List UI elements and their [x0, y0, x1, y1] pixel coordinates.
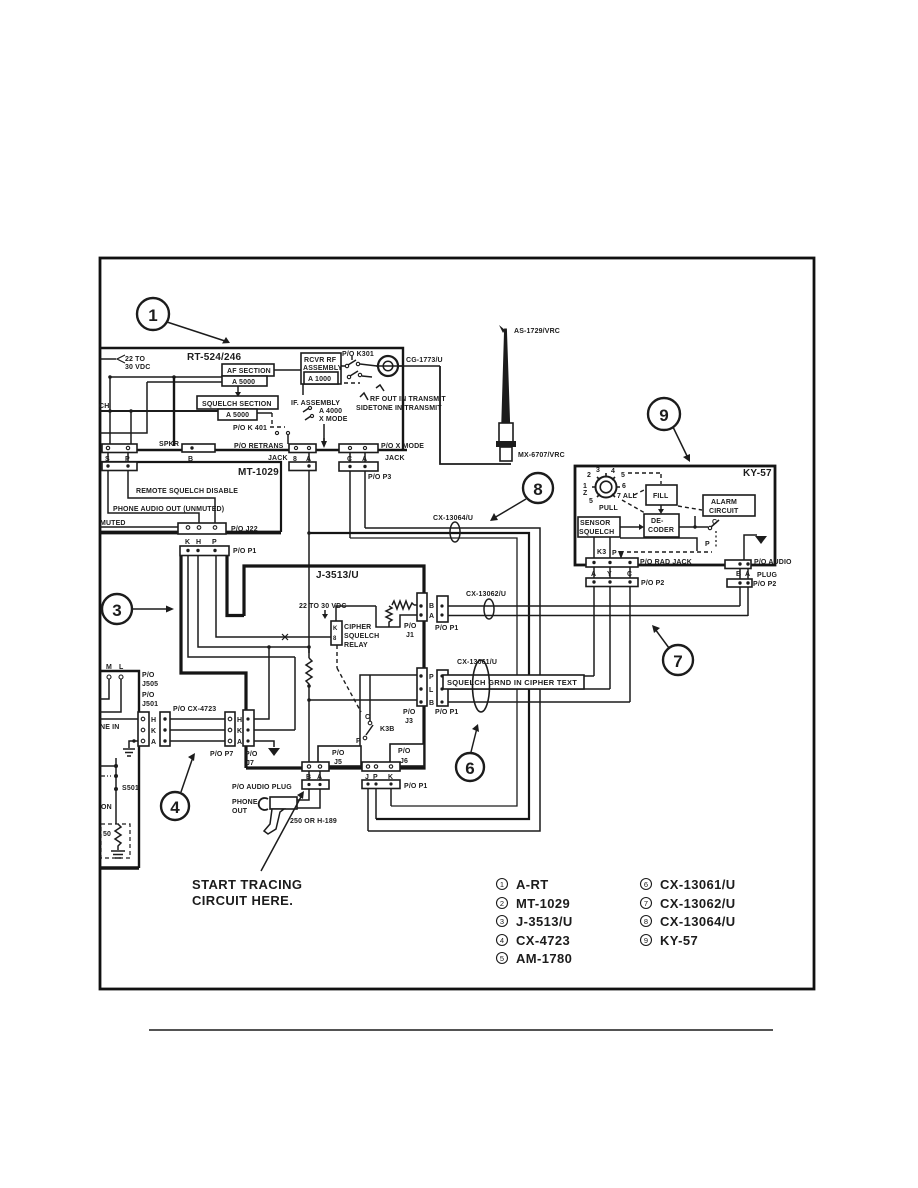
- svg-text:MT-1029: MT-1029: [516, 896, 570, 911]
- svg-text:6: 6: [465, 759, 474, 778]
- wire J7-K riser: [254, 729, 295, 731]
- wire elbow lower-left: [100, 382, 147, 433]
- dashed wire FILL to ALARM: [678, 506, 702, 510]
- legend item 7 CX-13062/U: [641, 898, 652, 909]
- wire J7-H riser: [254, 647, 269, 719]
- arrow FILL to DECODER: [660, 505, 662, 510]
- svg-text:KY-57: KY-57: [743, 468, 772, 479]
- wire resistor node to J3 pin B: [309, 699, 421, 701]
- svg-text:IF. ASSEMBLY: IF. ASSEMBLY: [291, 400, 340, 407]
- ground under resistor: [111, 851, 125, 858]
- svg-text:250 OR H-189: 250 OR H-189: [290, 818, 337, 825]
- ground at audio jack: [744, 535, 757, 560]
- wire A to AF section: [110, 376, 222, 378]
- svg-text:J501: J501: [142, 701, 158, 708]
- svg-text:AM-1780: AM-1780: [516, 951, 572, 966]
- svg-text:P/O P1: P/O P1: [233, 548, 256, 555]
- svg-text:H: H: [196, 539, 201, 546]
- svg-text:7: 7: [673, 652, 682, 671]
- svg-text:K: K: [237, 728, 242, 735]
- legend item 5 AM-1780: [497, 953, 508, 964]
- KY-57 speech security box: [575, 466, 775, 565]
- svg-text:SPKR: SPKR: [159, 441, 179, 448]
- connector P/O P2 left: [586, 578, 638, 587]
- connector tab J P K: [362, 762, 400, 771]
- wires B A drops: [739, 587, 741, 606]
- svg-text:30 VDC: 30 VDC: [125, 364, 150, 371]
- svg-text:A-RT: A-RT: [516, 877, 549, 892]
- svg-text:H: H: [237, 717, 242, 724]
- ALARM CIRCUIT box: [703, 495, 755, 516]
- svg-text:P/O: P/O: [332, 750, 345, 757]
- svg-text:SIDETONE IN TRANSMIT: SIDETONE IN TRANSMIT: [356, 405, 442, 412]
- svg-text:2: 2: [500, 899, 504, 908]
- svg-text:RCVR RF: RCVR RF: [304, 357, 337, 364]
- svg-text:ON: ON: [101, 804, 112, 811]
- svg-text:L: L: [119, 664, 124, 671]
- svg-text:4: 4: [170, 798, 180, 817]
- callout 9 (KY-57): [648, 398, 680, 430]
- legend item 3 J-3513/U: [497, 916, 508, 927]
- cable CX-13062/U: [484, 599, 494, 619]
- svg-text:K3: K3: [597, 549, 606, 556]
- svg-text:P/O RAD JACK: P/O RAD JACK: [640, 559, 692, 566]
- resistor 50 in dashed box: [101, 824, 130, 858]
- wire thick bundle upper to J-3513 notch: [227, 556, 244, 616]
- connector stub A to sub tab: [308, 452, 310, 462]
- svg-text:A: A: [429, 613, 434, 620]
- svg-text:CX-4723: CX-4723: [516, 933, 570, 948]
- MT-1029 mount box: [100, 462, 281, 532]
- svg-text:AF SECTION: AF SECTION: [227, 368, 271, 375]
- junction dots: [108, 375, 112, 379]
- svg-text:J3: J3: [405, 718, 413, 725]
- connector J1: [417, 593, 427, 621]
- wires sensor squelch to rad jack: [593, 537, 595, 558]
- legend item 1 A-RT: [497, 879, 508, 890]
- AF SECTION assembly A5000: [222, 364, 274, 376]
- svg-text:4: 4: [611, 468, 615, 475]
- svg-text:KY-57: KY-57: [660, 933, 698, 948]
- wire X MODE drop with arrowhead: [323, 424, 325, 443]
- svg-text:RELAY: RELAY: [344, 642, 368, 649]
- RT-524/246 receiver-transmitter box: [100, 348, 403, 450]
- svg-text:S501: S501: [122, 785, 139, 792]
- wire phone in: [100, 718, 138, 720]
- dashed wire rotary 5 to FILL: [628, 472, 660, 474]
- SQUELCH SECTION assembly A5000: [197, 396, 278, 409]
- wire K8 top feed: [336, 606, 376, 621]
- svg-text:8: 8: [533, 480, 542, 499]
- wire decoder to contact C: [679, 526, 708, 528]
- svg-text:PLUG: PLUG: [757, 572, 777, 579]
- svg-text:SQUELCH SECTION: SQUELCH SECTION: [202, 401, 272, 408]
- svg-text:NE IN: NE IN: [100, 724, 119, 731]
- wire arrows RF OUT / SIDETONE: [360, 393, 368, 400]
- svg-text:1: 1: [500, 880, 504, 889]
- svg-text:J-3513/U: J-3513/U: [516, 914, 573, 929]
- svg-text:A: A: [151, 739, 156, 746]
- svg-text:A 5000: A 5000: [226, 412, 249, 419]
- handset phone plug icon: [259, 798, 268, 810]
- outer border frame: [100, 258, 814, 989]
- resistor R2 horizontal at J1: [392, 601, 414, 609]
- svg-text:CODER: CODER: [648, 527, 674, 534]
- wire B to A5000: [147, 381, 222, 383]
- svg-text:P/O: P/O: [245, 751, 258, 758]
- connector tab on MT top: [102, 462, 137, 471]
- svg-text:P/O P1: P/O P1: [435, 625, 458, 632]
- svg-text:FILL: FILL: [653, 493, 669, 500]
- svg-text:CX-13062/U: CX-13062/U: [466, 591, 506, 598]
- connector audio plug tab B A: [302, 762, 329, 771]
- svg-text:SENSOR: SENSOR: [580, 520, 610, 527]
- svg-text:M: M: [106, 664, 112, 671]
- callout 3 (J-3513/U): [102, 594, 132, 624]
- svg-text:X MODE: X MODE: [319, 416, 348, 423]
- svg-text:9: 9: [659, 406, 668, 425]
- svg-text:RT-524/246: RT-524/246: [187, 352, 241, 363]
- svg-text:P/O K 401: P/O K 401: [233, 425, 267, 432]
- svg-text:P/O: P/O: [142, 672, 155, 679]
- svg-text:9: 9: [644, 936, 648, 945]
- switch S501: [100, 765, 116, 767]
- svg-text:5: 5: [589, 498, 593, 505]
- connector tab S P: [102, 444, 137, 453]
- svg-text:6: 6: [622, 483, 626, 490]
- wire squelch bus 1 from P3-A (to P1 pin J): [365, 528, 540, 831]
- svg-text:CX-13062/U: CX-13062/U: [660, 896, 736, 911]
- callout 7 (CX-13062/U): [663, 645, 693, 675]
- wire squiggle feed: [376, 606, 389, 627]
- wire B from J3 to KY P2-C: [448, 701, 630, 703]
- connector tab C A (X MODE jack): [339, 444, 378, 453]
- wire thick SPKR riser: [173, 377, 175, 446]
- DE-CODER box: [644, 514, 679, 537]
- connector P/O P3: [339, 462, 378, 471]
- svg-text:P/O CX-4723: P/O CX-4723: [173, 706, 216, 713]
- wires P2 A Y C drops: [593, 586, 595, 676]
- wire vertical left riser S: [109, 377, 111, 444]
- wire resistor to audio plug B: [308, 686, 310, 763]
- wire drop arrow on rail: [323, 438, 325, 443]
- ground at J501: [129, 741, 138, 748]
- svg-text:P/O P1: P/O P1: [404, 783, 427, 790]
- resistor R3 vertical at J1: [386, 606, 392, 627]
- svg-text:PHONE: PHONE: [232, 799, 258, 806]
- svg-text:8: 8: [644, 917, 648, 926]
- rotary mode switch: [596, 477, 617, 498]
- svg-text:7: 7: [644, 899, 648, 908]
- svg-text:P/O K301: P/O K301: [342, 351, 374, 358]
- svg-text:P/O: P/O: [398, 748, 411, 755]
- svg-text:B: B: [429, 700, 434, 707]
- RT bottom rail: [100, 449, 407, 452]
- svg-text:PHONE AUDIO OUT (UNMUTED): PHONE AUDIO OUT (UNMUTED): [113, 506, 224, 513]
- svg-text:J7: J7: [246, 760, 254, 767]
- svg-text:P/O X MODE: P/O X MODE: [381, 443, 424, 450]
- svg-text:K: K: [333, 626, 338, 632]
- wires CX-4723 H K A: [170, 718, 225, 720]
- svg-text:P/O RETRANS: P/O RETRANS: [234, 443, 284, 450]
- svg-text:B: B: [429, 603, 434, 610]
- svg-text:SQUELCH GRND IN CIPHER TEXT: SQUELCH GRND IN CIPHER TEXT: [447, 678, 577, 687]
- relay K8 cipher squelch: [331, 621, 342, 645]
- legend item 2 MT-1029: [497, 898, 508, 909]
- connector stubs C A to P3: [349, 452, 351, 462]
- svg-text:REMOTE SQUELCH DISABLE: REMOTE SQUELCH DISABLE: [136, 488, 238, 495]
- connector CG-1773/U: [378, 356, 398, 376]
- svg-text:K: K: [151, 728, 156, 735]
- legend item 6 CX-13061/U: [641, 879, 652, 890]
- node label squelch grind: [443, 675, 584, 689]
- svg-text:A: A: [237, 739, 242, 746]
- J-3513/U control box: [244, 566, 424, 768]
- wire A from J1 to KY P2: [448, 615, 748, 617]
- svg-text:CIRCUIT: CIRCUIT: [709, 508, 739, 515]
- legend item 4 CX-4723: [497, 935, 508, 946]
- svg-text:A 1000: A 1000: [308, 376, 331, 383]
- dashed wire rotary to decoder: [622, 500, 645, 513]
- svg-text:Z: Z: [583, 490, 588, 497]
- svg-text:5: 5: [500, 954, 504, 963]
- svg-text:P/O AUDIO: P/O AUDIO: [754, 559, 792, 566]
- wire vertical riser P: [130, 411, 132, 444]
- connector P1 at J3: [437, 670, 448, 706]
- svg-text:OUT: OUT: [232, 808, 248, 815]
- svg-text:P/O P1: P/O P1: [435, 709, 458, 716]
- callout 8 (CX-13064/U): [523, 473, 553, 503]
- svg-text:6: 6: [644, 880, 648, 889]
- connector J7 on left rail: [243, 710, 254, 746]
- wire L exit: [100, 679, 121, 712]
- svg-text:3: 3: [596, 467, 600, 474]
- wire P from J3 to KY P2-A: [448, 675, 594, 677]
- wire SQUELCH bus: [100, 410, 218, 412]
- svg-text:CX-13064/U: CX-13064/U: [660, 914, 736, 929]
- connector P1 at J1: [437, 596, 448, 622]
- wire squelch bus 2 thick from retrans-A riser (to P1 pin P): [309, 533, 529, 819]
- svg-text:50: 50: [103, 831, 111, 838]
- svg-text:K: K: [185, 539, 190, 546]
- svg-text:P/O P3: P/O P3: [368, 474, 391, 481]
- connector tab 8 A: [289, 444, 316, 453]
- wire squelch bus 3 from P3-C (to P1 pin K): [350, 538, 517, 806]
- legend item 8 CX-13064/U: [641, 916, 652, 927]
- connector P/O J6: [390, 744, 424, 766]
- wire M exit: [100, 679, 109, 699]
- svg-text:P/O: P/O: [403, 709, 416, 716]
- svg-text:J1: J1: [406, 632, 414, 639]
- svg-text:2: 2: [587, 472, 591, 479]
- connector P/O RAD JACK: [586, 558, 638, 567]
- resistor R1 vertical: [306, 658, 312, 686]
- connector P/O P1: [180, 546, 229, 556]
- svg-text:P/O J22: P/O J22: [231, 526, 258, 533]
- svg-text:AS-1729/VRC: AS-1729/VRC: [514, 328, 560, 335]
- svg-text:CIPHER: CIPHER: [344, 624, 371, 631]
- svg-text:MUTED: MUTED: [100, 520, 126, 527]
- svg-text:4: 4: [500, 936, 504, 945]
- svg-text:J6: J6: [400, 758, 408, 765]
- connector J3: [417, 668, 427, 706]
- antenna AS-1729/VRC mast: [502, 329, 510, 423]
- svg-text:START TRACING: START TRACING: [192, 877, 302, 892]
- svg-text:MX-6707/VRC: MX-6707/VRC: [518, 452, 565, 459]
- relay K3B contact: [336, 645, 338, 668]
- connector P/O P1 bottom: [362, 780, 400, 789]
- connector P/O AUDIO jack: [725, 560, 751, 569]
- svg-text:H: H: [151, 717, 156, 724]
- wire P1-P to relay K8: [216, 556, 331, 637]
- callout 6 (CX-13061/U): [456, 753, 484, 781]
- cable CX-13064/U: [450, 522, 460, 542]
- svg-text:ASSEMBLY: ASSEMBLY: [303, 365, 343, 372]
- svg-text:CH: CH: [99, 403, 109, 410]
- wire riser A to cipher resistor: [308, 470, 310, 653]
- arrow AF to squelch section: [237, 386, 239, 393]
- svg-text:1: 1: [583, 483, 587, 490]
- svg-text:J5: J5: [334, 759, 342, 766]
- cable CX-13061/U: [473, 660, 490, 712]
- svg-text:P/O P2: P/O P2: [641, 580, 664, 587]
- svg-text:3: 3: [500, 917, 504, 926]
- wire A drop: [364, 471, 366, 528]
- svg-text:K3B: K3B: [380, 726, 394, 733]
- svg-text:CG-1773/U: CG-1773/U: [406, 357, 443, 364]
- svg-text:CX-13061/U: CX-13061/U: [660, 877, 736, 892]
- legend item 9 KY-57: [641, 935, 652, 946]
- wire contact C to J3 pin P: [360, 675, 421, 746]
- relay K401 contact: [257, 412, 272, 414]
- svg-text:P/O: P/O: [142, 692, 155, 699]
- svg-text:A 4000: A 4000: [319, 408, 342, 415]
- svg-text:ALARM: ALARM: [711, 499, 737, 506]
- wire to J1 pin A: [389, 615, 418, 627]
- svg-text:J505: J505: [142, 681, 158, 688]
- wire muted: [100, 526, 185, 528]
- wire P1-K to J7-K riser: [188, 556, 295, 657]
- wire 22-30 VDC input stub: [100, 358, 116, 360]
- svg-text:5: 5: [621, 472, 625, 479]
- connector P/O P2 right: [727, 579, 752, 587]
- svg-text:PULL: PULL: [599, 505, 618, 512]
- bottom rule line: [149, 1029, 773, 1031]
- svg-text:CX-13064/U: CX-13064/U: [433, 515, 473, 522]
- wire C drop: [349, 471, 351, 538]
- connector P/O J5: [318, 746, 361, 766]
- wire phone audio out unmuted: [108, 470, 199, 524]
- wire CG to antenna: [398, 365, 440, 367]
- svg-text:P/O AUDIO PLUG: P/O AUDIO PLUG: [232, 784, 292, 791]
- svg-text:P: P: [612, 550, 617, 557]
- svg-text:CIRCUIT HERE.: CIRCUIT HERE.: [192, 893, 293, 908]
- svg-text:RF OUT IN TRANSMIT: RF OUT IN TRANSMIT: [370, 396, 446, 403]
- svg-text:CX-13061/U: CX-13061/U: [457, 659, 497, 666]
- arrow SENSOR to DECODER: [620, 526, 640, 528]
- SENSOR SQUELCH box: [578, 517, 620, 537]
- wire thick cable bundle from P1 to J-3513 left: [181, 556, 246, 768]
- RCVR RF ASSEMBLY A1000: [301, 353, 341, 384]
- callout 4 (CX-4723): [161, 792, 189, 820]
- AM-1780 amplifier box (cut at frame): [100, 671, 139, 868]
- wire B from J1 to KY P2: [448, 605, 740, 607]
- svg-text:DE-: DE-: [651, 518, 664, 525]
- antenna base MX-6707/VRC: [499, 423, 513, 442]
- svg-text:1: 1: [148, 306, 157, 325]
- svg-text:P: P: [705, 541, 710, 548]
- svg-text:P: P: [429, 674, 434, 681]
- svg-text:P: P: [212, 539, 217, 546]
- junction riser 309: [307, 531, 311, 535]
- svg-text:P/O: P/O: [404, 623, 417, 630]
- svg-text:P/O P7: P/O P7: [210, 751, 233, 758]
- svg-text:MT-1029: MT-1029: [238, 467, 279, 478]
- cable plug P/O P7: [225, 712, 235, 746]
- wire P1-H to resistor top: [198, 556, 309, 658]
- wire remote squelch disable: [128, 470, 215, 524]
- svg-text:L: L: [429, 687, 434, 694]
- svg-text:3: 3: [112, 601, 121, 620]
- svg-text:SQUELCH: SQUELCH: [344, 633, 379, 640]
- stubs S P to MT tab: [107, 452, 109, 464]
- wire A stub to plug: [297, 789, 320, 808]
- svg-text:P/O P2: P/O P2: [753, 581, 776, 588]
- svg-text:J-3513/U: J-3513/U: [316, 570, 359, 581]
- svg-text:A 5000: A 5000: [232, 379, 255, 386]
- ground symbol in J-3513: [268, 748, 280, 756]
- svg-text:22 TO: 22 TO: [125, 356, 145, 363]
- cable P/O CX-4723 plug left: [160, 712, 170, 746]
- callout 1 (A-RT): [137, 298, 169, 330]
- connector P/O J22: [178, 523, 226, 534]
- wire B stub to plug: [297, 789, 309, 800]
- wire AF to RCVR: [274, 369, 301, 371]
- svg-text:JACK: JACK: [385, 455, 405, 462]
- FILL box: [646, 485, 677, 505]
- svg-text:SQUELCH: SQUELCH: [579, 529, 614, 536]
- wire J7-A to ground: [254, 741, 274, 747]
- wire L from J3 to KY P2-Y: [448, 688, 610, 690]
